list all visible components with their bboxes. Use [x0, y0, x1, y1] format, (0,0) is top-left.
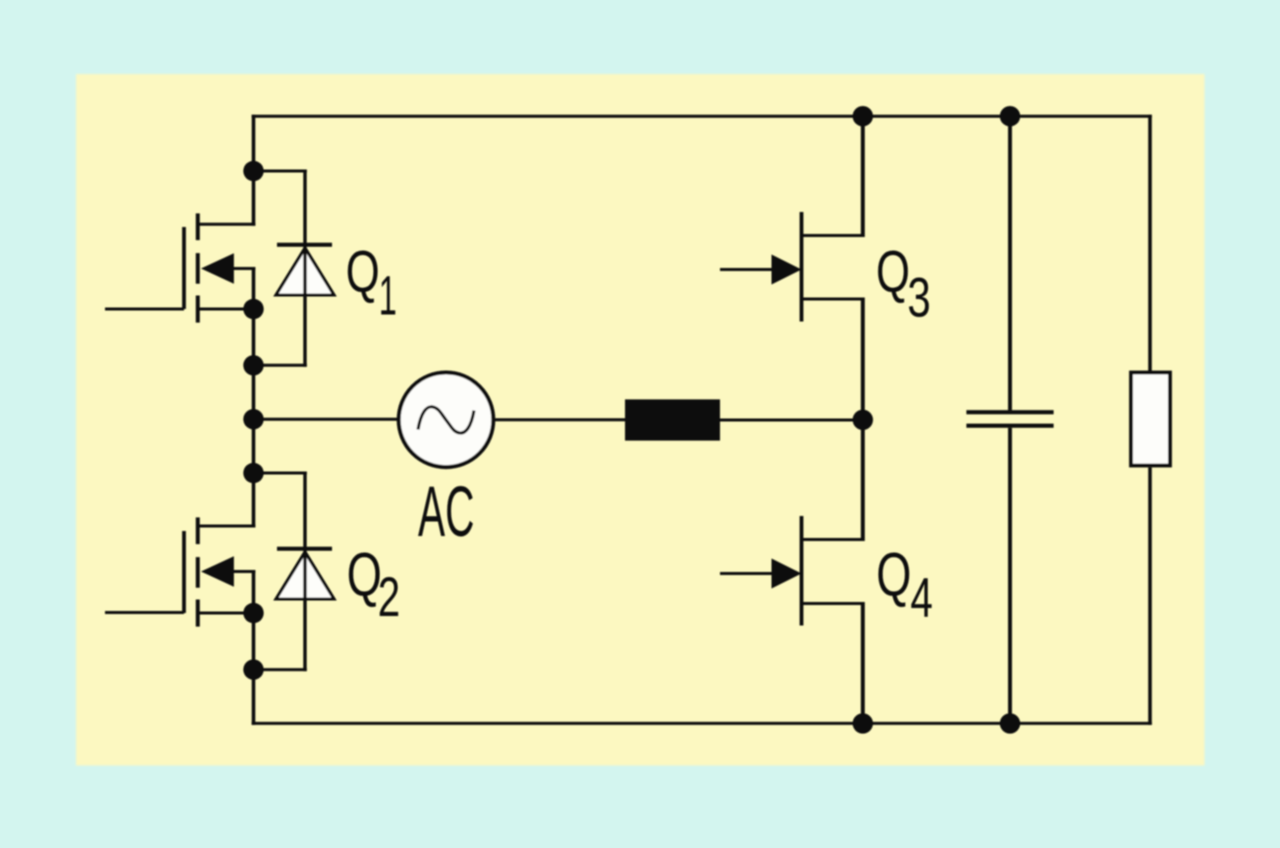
svg-text:Q: Q [346, 239, 380, 305]
svg-text:Q: Q [876, 239, 910, 305]
svg-text:3: 3 [907, 267, 930, 329]
svg-text:2: 2 [378, 567, 400, 629]
svg-text:AC: AC [418, 473, 474, 552]
svg-text:Q: Q [347, 541, 382, 609]
svg-text:1: 1 [379, 264, 397, 326]
svg-text:Q: Q [876, 541, 911, 609]
svg-text:4: 4 [910, 567, 932, 629]
